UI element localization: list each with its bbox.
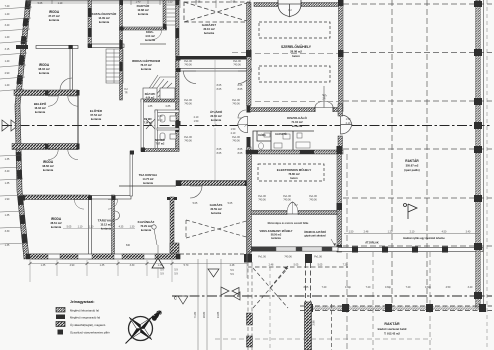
- svg-text:1.20: 1.20: [388, 231, 393, 234]
- svg-text:71.80: 71.80: [193, 311, 197, 318]
- VIZES bottom wall y=249 with window openings: [251, 247, 341, 252]
- svg-text:1.35: 1.35: [5, 244, 10, 247]
- BELEPO east wall: [77, 96, 79, 145]
- dashed X bottom hall: [253, 266, 288, 308]
- svg-text:8.05: 8.05: [304, 286, 309, 289]
- svg-text:Motorolajos és zsírzós szerelő: Motorolajos és zsírzós szerelő fülke: [268, 222, 309, 225]
- svg-text:2.10: 2.10: [410, 231, 415, 234]
- svg-text:1.85: 1.85: [148, 105, 153, 108]
- kozl south wall: [140, 43, 166, 45]
- vertical dashed line x=331 below wall: [331, 304, 333, 350]
- dark piers top wall: [88, 8, 123, 71]
- top wall of offices (thin, cut off by image edge): [28, 0, 180, 2]
- svg-text:kerámia: kerámia: [143, 181, 153, 185]
- svg-text:kerámia: kerámia: [43, 168, 54, 172]
- svg-text:8.05: 8.05: [238, 148, 243, 151]
- dashed work rect elektromos: [258, 164, 324, 181]
- wall x=90 between IRODA38 and TARGYALO: [89, 199, 92, 259]
- svg-text:4.50: 4.50: [442, 231, 447, 234]
- svg-text:2.10: 2.10: [158, 119, 163, 122]
- svg-text:(ipari padló): (ipari padló): [404, 168, 419, 172]
- svg-text:RAKTÁR: RAKTÁR: [405, 158, 419, 163]
- svg-text:1.35: 1.35: [5, 158, 10, 161]
- svg-text:Pe1.06: Pe1.06: [314, 256, 322, 259]
- hall SZERELOMUHELY west wall (continuous to corridor y=186): [247, 3, 252, 106]
- svg-text:8.05: 8.05: [217, 148, 222, 151]
- svg-text:740.06: 740.06: [284, 256, 292, 259]
- kezi wc small rooms: [143, 88, 175, 99]
- svg-text:beton: beton: [292, 54, 300, 58]
- wall x=113 between TARGYALO and KAZANHAZ: [112, 195, 115, 259]
- svg-text:38.61 m2: 38.61 m2: [50, 221, 62, 225]
- door arc KOZL: [152, 30, 162, 40]
- svg-text:3.40: 3.40: [5, 24, 10, 27]
- corridor second wall y=69: [179, 69, 251, 72]
- svg-text:740.06: 740.06: [232, 103, 240, 106]
- svg-text:2.48: 2.48: [269, 264, 274, 267]
- svg-text:1.10: 1.10: [89, 226, 94, 229]
- east outer wall x=478: [476, 0, 481, 308]
- svg-text:3.30: 3.30: [168, 1, 173, 4]
- note kiadasi nyilas: [403, 237, 445, 240]
- svg-text:5.05: 5.05: [231, 1, 236, 4]
- hall top wall: [254, 3, 278, 7]
- KLIMA small rooms inside kiszolgalo: [253, 131, 314, 150]
- hall bottom double door opens up: [315, 101, 333, 108]
- room KAZANHAZ: [138, 219, 155, 232]
- hall bottom wall y=109.5: [250, 108, 315, 112]
- svg-text:kerámia: kerámia: [141, 67, 152, 71]
- svg-text:SZERELŐMŰHELY: SZERELŐMŰHELY: [281, 44, 312, 49]
- hall east wall: [339, 3, 344, 108]
- svg-text:1.90: 1.90: [5, 198, 10, 201]
- svg-text:5.05: 5.05: [38, 2, 43, 5]
- dim line across iroda/targyalo y=228.7: [63, 228, 135, 230]
- hall top double door: [278, 4, 301, 17]
- stairs/ramp diagonal in spine y77-97: [146, 75, 177, 97]
- thin wall line y=250 x338-480 with columns: [338, 247, 483, 253]
- svg-text:KLÍMA: KLÍMA: [258, 134, 266, 137]
- room BELEPO: [34, 101, 47, 114]
- flag symbol raktar: [404, 204, 418, 220]
- svg-text:kerámia: kerámia: [39, 71, 50, 75]
- svg-text:4.04 m2: 4.04 m2: [145, 34, 155, 38]
- room GARAZS: [210, 202, 223, 215]
- svg-text:4.04 m2: 4.04 m2: [146, 97, 155, 100]
- svg-text:740.06: 740.06: [233, 64, 241, 67]
- window piers on left wall (dark): [25, 1, 31, 9]
- svg-text:1.50: 1.50: [346, 118, 351, 121]
- grid line v x=347 below: [346, 154, 348, 350]
- grid line h y=198: [343, 197, 492, 199]
- columns on east wall: [474, 1, 482, 7]
- room SZERELOMUHELY: [281, 44, 312, 58]
- note text Motorolaj: [268, 222, 309, 225]
- svg-text:0.30p: 0.30p: [345, 286, 352, 289]
- svg-text:ÁTJÁRLAK: ÁTJÁRLAK: [365, 242, 379, 245]
- dashed work rect 1: [259, 22, 330, 38]
- svg-text:3.30: 3.30: [130, 264, 135, 267]
- axis c triangle marker: [233, 292, 240, 300]
- triangle marker right at 224,291: [221, 287, 229, 295]
- wall x=90 between IRODA and KATALOGUSTAR: [88, 0, 92, 47]
- TEA KONYHA west wall x=131: [130, 151, 133, 196]
- room GARAZS? dashed: [202, 22, 217, 35]
- svg-text:Új acélcső vázszerkezetes pill: Új acélcső vázszerkezetes pillér: [70, 330, 110, 335]
- svg-text:kerámia: kerámia: [141, 228, 152, 232]
- room TARGYALO: [98, 218, 115, 231]
- door arc IRODA 98.03: [60, 78, 72, 90]
- room KLIMA: [258, 133, 287, 137]
- svg-text:12.88 m2: 12.88 m2: [137, 8, 149, 12]
- garage top wall y=183: [176, 181, 250, 186]
- svg-text:7.20: 7.20: [406, 286, 411, 289]
- svg-text:305.67 m2: 305.67 m2: [406, 164, 419, 168]
- grid line h y=52: [343, 52, 492, 54]
- svg-text:betonka: betonka: [211, 211, 222, 215]
- arrow head on X: [284, 266, 288, 270]
- grid line v x=430 below: [429, 252, 431, 350]
- svg-text:8.05: 8.05: [238, 88, 243, 91]
- svg-text:kerámia: kerámia: [99, 20, 110, 24]
- ELEKTROMOS east wall: [337, 151, 342, 252]
- svg-text:Új válaszfal(téglal), magasró: Új válaszfal(téglal), magasró: [70, 322, 106, 327]
- svg-text:kerámia: kerámia: [138, 12, 149, 16]
- svg-text:740.06: 740.06: [283, 199, 291, 202]
- svg-text:15.12 m2: 15.12 m2: [100, 223, 112, 227]
- svg-text:kerámia: kerámia: [35, 110, 46, 114]
- svg-text:840: 840: [126, 244, 131, 247]
- room IRODA 98.03: [38, 63, 50, 75]
- vertical dim labels on bottom extension lines: [193, 311, 220, 318]
- svg-text:740.06: 740.06: [184, 103, 192, 106]
- spine west wall x=121: [120, 0, 123, 100]
- svg-text:3.30: 3.30: [5, 230, 10, 233]
- svg-text:1.35: 1.35: [5, 214, 10, 217]
- svg-text:1.35: 1.35: [158, 264, 163, 267]
- room IRODAI GEPTEREM: [132, 58, 161, 71]
- svg-text:8.05: 8.05: [217, 88, 222, 91]
- svg-text:KÖZL.: KÖZL.: [146, 30, 154, 34]
- svg-text:ELŐTÉR: ELŐTÉR: [90, 108, 103, 113]
- door arcs in y196 wall: [74, 200, 84, 210]
- svg-text:1.50: 1.50: [231, 128, 236, 131]
- staircase next to katalogustar: [106, 49, 123, 83]
- bottom wall left building y=257: [26, 254, 180, 259]
- svg-text:1.50: 1.50: [158, 115, 163, 118]
- svg-text:1.40: 1.40: [5, 84, 10, 87]
- svg-text:37.97 m2: 37.97 m2: [48, 14, 60, 18]
- svg-text:14.09 m2: 14.09 m2: [98, 16, 110, 20]
- svg-text:7.40: 7.40: [5, 5, 10, 8]
- svg-text:1.50: 1.50: [349, 231, 354, 234]
- room RAKTAR 305: [404, 158, 419, 172]
- KISZOLGALO bottom wall y=152: [246, 150, 343, 154]
- svg-text:4.90: 4.90: [70, 264, 75, 267]
- svg-text:71.04 m2: 71.04 m2: [291, 120, 303, 124]
- legend row 4: [58, 330, 64, 335]
- wall between IRODA 37.97 and IRODA 98.03 y=46: [16, 45, 78, 49]
- bottom dashed wall y=308: [300, 304, 492, 312]
- room ATJARO: [210, 109, 223, 122]
- svg-text:BELÉPŐ: BELÉPŐ: [34, 101, 47, 106]
- svg-text:ELOSZTÓ: ELOSZTÓ: [275, 133, 286, 136]
- room IRODA 98.66: [42, 160, 54, 172]
- svg-text:ÁTJÁRÓ: ÁTJÁRÓ: [210, 109, 223, 114]
- svg-text:740.06: 740.06: [309, 199, 317, 202]
- legend row 1: [56, 308, 65, 313]
- svg-text:GARÁZS?: GARÁZS?: [202, 22, 217, 27]
- svg-text:0.30p: 0.30p: [385, 286, 392, 289]
- svg-text:740.06: 740.06: [232, 140, 240, 143]
- spine east wall x=177: [176, 0, 180, 151]
- svg-text:kerámia: kerámia: [145, 38, 155, 42]
- dashed box GARAZS? top: [184, 2, 250, 22]
- svg-text:2.10: 2.10: [194, 116, 199, 119]
- ATJARO axis door X marker: [146, 119, 155, 129]
- small stairs between raktar and spine walls: [167, 5, 176, 25]
- door dbl west kiszolgalo opens left: [238, 116, 248, 132]
- legend row 3: [56, 322, 65, 327]
- room RAKTAR small: [137, 3, 150, 16]
- S point: [127, 327, 140, 340]
- room KISZOLGALO: [287, 115, 307, 128]
- svg-text:IRODA: IRODA: [43, 160, 54, 164]
- svg-text:98.66 m2: 98.66 m2: [42, 164, 54, 168]
- svg-text:5.05: 5.05: [67, 226, 72, 229]
- svg-text:5.70: 5.70: [184, 264, 189, 267]
- svg-text:1.40: 1.40: [136, 1, 141, 4]
- svg-text:98.03 m2: 98.03 m2: [38, 67, 50, 71]
- svg-text:1.40: 1.40: [5, 60, 10, 63]
- svg-text:7.20: 7.20: [322, 286, 327, 289]
- corridor extension line x=215: [214, 60, 216, 124]
- svg-text:kerámia: kerámia: [292, 124, 303, 128]
- grid line h y=149: [343, 148, 492, 150]
- boiler fixture kazanhaz: [152, 225, 156, 229]
- grid line v x=427: [426, 0, 428, 307]
- svg-text:5.05: 5.05: [196, 1, 201, 4]
- svg-text:TEA KONYHA: TEA KONYHA: [139, 173, 157, 177]
- svg-text:76.37 m2: 76.37 m2: [140, 63, 152, 67]
- room Ffi WC: [144, 118, 153, 125]
- door arc corridor->kiszolgalo: [238, 110, 247, 118]
- svg-text:1.10: 1.10: [58, 2, 63, 5]
- needle / arrow: [126, 316, 154, 344]
- triangle symbol below boiler room: [152, 258, 164, 268]
- svg-text:2.10: 2.10: [231, 132, 236, 135]
- door dbl east kiszolgalo opens right: [341, 115, 352, 134]
- svg-text:7.34 m2: 7.34 m2: [144, 122, 153, 125]
- room IRODA 38.61: [50, 217, 62, 229]
- grid line h y=4: [343, 3, 492, 5]
- room MOSDO: [155, 139, 165, 146]
- svg-text:14.75 m2: 14.75 m2: [143, 177, 155, 181]
- svg-text:7R: 7R: [124, 92, 127, 95]
- svg-text:4.50: 4.50: [446, 286, 451, 289]
- svg-text:2.10: 2.10: [346, 122, 351, 125]
- svg-text:IRODA: IRODA: [39, 63, 50, 67]
- leader arrow uzemi olajtaro: [331, 239, 335, 246]
- svg-text:GARÁZS: GARÁZS: [210, 202, 223, 207]
- svg-text:Jelmagyarázat:: Jelmagyarázat:: [70, 300, 95, 304]
- svg-text:Pe1.06: Pe1.06: [258, 256, 266, 259]
- svg-text:T: 912.42 m2: T: 912.42 m2: [384, 332, 400, 336]
- svg-text:1.40: 1.40: [5, 13, 10, 16]
- dashed work rect 2: [259, 66, 330, 82]
- svg-text:0.85: 0.85: [166, 105, 171, 108]
- svg-text:30.59 m2: 30.59 m2: [210, 207, 222, 211]
- svg-text:72.29 m2: 72.29 m2: [140, 224, 152, 228]
- junction posts (black door/wall posts): [20, 0, 252, 263]
- grid line h y=246: [343, 245, 492, 247]
- svg-text:kerámia: kerámia: [101, 227, 112, 231]
- svg-text:8.05: 8.05: [217, 84, 222, 87]
- svg-text:IRODAI GÉPTEREM: IRODAI GÉPTEREM: [132, 58, 161, 63]
- svg-text:KISZOLGÁLÓ: KISZOLGÁLÓ: [287, 115, 307, 120]
- svg-text:740.06: 740.06: [184, 140, 192, 143]
- triangle marker left at 235,291: [232, 288, 239, 295]
- W point: [129, 315, 142, 328]
- BELEPO bottom wall y=146: [12, 144, 78, 150]
- svg-text:1.35: 1.35: [5, 182, 10, 185]
- corridor tick slashes: [214, 124, 248, 127]
- svg-text:3.40: 3.40: [466, 231, 471, 234]
- wall y=47 under KATALOGUSTAR: [88, 44, 124, 48]
- svg-text:1.10: 1.10: [78, 226, 83, 229]
- svg-text:2.90: 2.90: [5, 72, 10, 75]
- bottom dashed line y=339: [215, 338, 432, 340]
- door arc corridor right: [238, 71, 251, 84]
- svg-text:30.10 m2: 30.10 m2: [203, 27, 215, 31]
- room KATALOGUSTAR: [92, 11, 118, 24]
- triangle marker v at 213,272: [208, 269, 219, 277]
- svg-text:4.35: 4.35: [119, 226, 124, 229]
- ELEKTROMOS bottom wall y=212: [251, 211, 287, 215]
- svg-text:3.15: 3.15: [5, 48, 10, 51]
- svg-text:1.50: 1.50: [194, 120, 199, 123]
- door arcs below y146 wall: [48, 150, 58, 160]
- axis marker triangles left: [2, 120, 9, 131]
- grid line v x=373 below: [372, 252, 374, 350]
- legend row 2: [56, 315, 65, 320]
- svg-text:0.30p: 0.30p: [425, 286, 432, 289]
- svg-text:3.40: 3.40: [5, 170, 10, 173]
- dimension line 1.50/2.48 row y=233: [344, 233, 480, 235]
- left exterior slanted wall: [15, 0, 31, 259]
- room ELEKTROMOS MUHELY: [277, 167, 311, 180]
- svg-text:7.20: 7.20: [366, 286, 371, 289]
- west wall dashes going down with hatched segments: [247, 262, 253, 350]
- svg-text:5.05: 5.05: [193, 202, 198, 205]
- svg-text:KAZÁNHÁZ: KAZÁNHÁZ: [138, 219, 155, 224]
- svg-text:28.08 m2: 28.08 m2: [290, 50, 302, 54]
- svg-text:2.86: 2.86: [312, 320, 316, 326]
- svg-text:KATALÓGUSTÁR: KATALÓGUSTÁR: [92, 11, 118, 16]
- KAZANHAZ east wall x=172: [167, 197, 177, 200]
- svg-text:kiadási nyílás egy mezőnél leh: kiadási nyílás egy mezőnél lehetne: [403, 237, 445, 240]
- note ATJARLAK: [365, 242, 379, 245]
- svg-text:Meglévő lebontandó fal: Meglévő lebontandó fal: [70, 309, 99, 313]
- vertical dashed x=270 below: [269, 267, 271, 350]
- wall under RAKTAR y=28: [120, 27, 167, 30]
- corridor top wall y=57 (x178-251): [179, 56, 251, 60]
- svg-text:betonka: betonka: [204, 31, 215, 35]
- vertical wall x=307 going down: blob, dashed, then hatched: [305, 254, 313, 350]
- svg-text:5.05: 5.05: [228, 202, 233, 205]
- triangle marker c axis: [178, 296, 188, 304]
- svg-text:67.53 m2: 67.53 m2: [90, 113, 102, 117]
- svg-text:8.05: 8.05: [238, 152, 243, 155]
- garage door arc: [190, 186, 202, 198]
- svg-text:3.40: 3.40: [468, 286, 473, 289]
- svg-text:8.05: 8.05: [238, 84, 243, 87]
- svg-text:8.05: 8.05: [217, 152, 222, 155]
- slash ticks on bottom dim line: [29, 262, 174, 265]
- svg-text:5.05: 5.05: [294, 264, 299, 267]
- wall x=71 between IRODA98 and Elotér: [70, 46, 73, 96]
- ELEKTROMOS west wall: [247, 154, 252, 252]
- room RAKTAR big bottom: [378, 321, 407, 336]
- elektromos door: [287, 202, 298, 214]
- ornate arrowhead NE: [151, 312, 161, 321]
- wall y=196 (top of IRODA38/TARGYALO row): [21, 195, 90, 200]
- wc fixtures: [160, 115, 165, 122]
- svg-text:kerámia: kerámia: [49, 18, 60, 22]
- KISZOLGALO east wall piers: [338, 104, 343, 116]
- door arc corridor left: [183, 71, 196, 84]
- room IRODA 37.97: [48, 10, 60, 22]
- svg-text:TÁRGYALÓ: TÁRGYALÓ: [98, 218, 115, 223]
- svg-text:kiadott szerkezet belül: kiadott szerkezet belül: [378, 327, 407, 331]
- BELEPO top wall y=93: [14, 90, 78, 96]
- svg-text:gépészeti aknával: gépészeti aknával: [304, 235, 326, 238]
- room ELOTER: [90, 108, 103, 121]
- wall arc fixture tárgyaló east wall: [115, 211, 120, 220]
- N point: [141, 317, 154, 330]
- svg-text:kerámia: kerámia: [271, 237, 281, 240]
- svg-text:76.80 m2: 76.80 m2: [288, 172, 300, 176]
- svg-text:16.33 m2: 16.33 m2: [34, 106, 46, 110]
- svg-text:1.30: 1.30: [130, 226, 135, 229]
- dashed top edge of X zone y=267: [248, 266, 348, 268]
- RAKTAR east wall x=164: [163, 0, 166, 28]
- E point: [139, 329, 152, 342]
- svg-text:22.60 m2: 22.60 m2: [210, 114, 222, 118]
- svg-text:c: c: [174, 296, 177, 302]
- svg-text:kerámia: kerámia: [51, 225, 62, 229]
- note UZEMI OLAJTARO: [304, 231, 326, 238]
- grid line h y=101: [343, 100, 492, 102]
- svg-text:1.40: 1.40: [5, 36, 10, 39]
- svg-text:IRODA: IRODA: [49, 10, 60, 14]
- svg-text:Meglévő megmaradó fal: Meglévő megmaradó fal: [70, 316, 100, 320]
- dashed X garage: [186, 220, 250, 238]
- door arcs on BELEPO top wall: [48, 96, 58, 106]
- WC block middle y100-150: [141, 99, 179, 152]
- room KOZL: [145, 30, 155, 42]
- svg-text:13.85: 13.85: [216, 311, 220, 318]
- svg-text:740.06: 740.06: [258, 199, 266, 202]
- svg-text:1.35: 1.35: [100, 264, 105, 267]
- svg-text:RAKTÁR: RAKTÁR: [384, 321, 400, 326]
- room KEZI WC: [145, 93, 156, 100]
- svg-text:kerámia: kerámia: [211, 118, 222, 122]
- svg-text:5.05: 5.05: [318, 264, 323, 267]
- svg-text:740.06: 740.06: [184, 64, 192, 67]
- svg-text:2.48: 2.48: [364, 231, 369, 234]
- svg-text:7.07 m2: 7.07 m2: [156, 143, 165, 146]
